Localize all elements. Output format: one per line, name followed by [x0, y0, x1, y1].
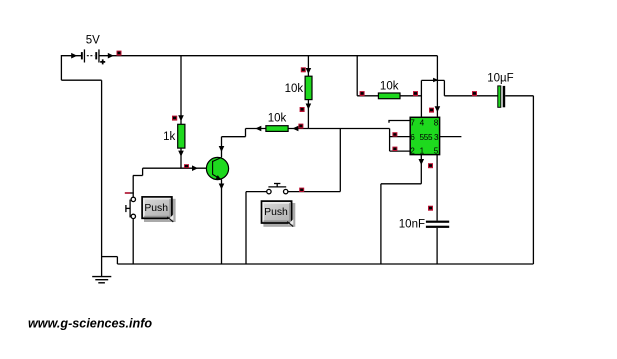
wire pin 5 down	[436, 155, 438, 221]
svg-text:3: 3	[434, 133, 439, 142]
svg-text:4: 4	[420, 119, 425, 128]
svg-text:1k: 1k	[163, 131, 175, 143]
wire pin 1 to ground rail	[380, 184, 382, 264]
wire SW2 left to ground rail	[245, 192, 247, 264]
wire pin 3 stub	[440, 136, 462, 138]
wire left elbow	[61, 79, 101, 81]
capacitor C1 10uF	[487, 72, 513, 107]
wire collector lead	[221, 137, 223, 157]
wire R4 left lead	[357, 95, 378, 97]
wire pin 2 lead	[390, 150, 411, 152]
push button box SW1	[142, 197, 176, 222]
wire stub to SW1	[130, 192, 134, 194]
wire C2 bottom lead	[436, 228, 438, 264]
wire mid horizontal to 555	[308, 128, 389, 130]
wire collector riser	[245, 129, 247, 137]
current arrow R3 bottom	[306, 104, 312, 110]
wire 10k R3 top lead	[307, 56, 309, 76]
current arrow R2 right	[292, 126, 298, 132]
battery B1 5V	[81, 35, 105, 65]
wire down to switch SW1	[132, 176, 134, 198]
svg-text:Push: Push	[144, 203, 168, 214]
wire cap feed drop	[443, 80, 445, 95]
node marker 1k top	[172, 116, 177, 121]
transistor Q1	[206, 157, 228, 180]
node marker pin 6	[392, 132, 397, 136]
ground	[92, 277, 111, 283]
svg-text:10k: 10k	[285, 83, 304, 95]
wire ground step horizontal	[102, 256, 118, 258]
wire base elbow vertical	[142, 168, 144, 175]
svg-text:5: 5	[434, 147, 439, 156]
wire pin 7 stub	[389, 121, 410, 123]
wire battery left lead	[61, 55, 81, 57]
wire to capacitor C1	[444, 95, 497, 97]
wire R3 bottom lead	[307, 100, 309, 129]
IC U1 555	[410, 117, 439, 155]
push button box SW2	[262, 201, 296, 227]
current arrow pin 8	[435, 106, 441, 112]
svg-text:7: 7	[410, 119, 415, 128]
node marker SW2 right	[299, 188, 304, 192]
node marker R3 top	[301, 67, 306, 72]
wire pin 1 horizontal	[381, 183, 421, 185]
svg-text:10k: 10k	[380, 81, 399, 93]
resistor R1 1k	[163, 124, 185, 148]
svg-text:www.g-sciences.info: www.g-sciences.info	[28, 317, 152, 331]
wire R4 right lead	[400, 95, 421, 97]
node marker base	[184, 164, 189, 168]
svg-text:10k: 10k	[268, 112, 287, 124]
wire ground step vertical	[116, 257, 118, 264]
push switch SW2 contacts	[267, 189, 288, 193]
wire SW1 bottom lead	[132, 219, 134, 264]
svg-text:2: 2	[410, 147, 415, 156]
svg-text:1: 1	[420, 147, 425, 156]
wire to 10k R2	[246, 128, 266, 130]
wire pins 6-2 vertical	[389, 129, 391, 152]
wire SW2 right lead	[288, 191, 340, 193]
current arrow emitter	[219, 184, 225, 190]
wire collector horizontal	[222, 136, 246, 138]
svg-text:Push: Push	[264, 207, 288, 218]
wire trigger vertical	[339, 129, 341, 192]
wire SW2 left lead	[246, 191, 267, 193]
svg-text:8: 8	[434, 119, 439, 128]
current arrow base wire	[192, 165, 198, 171]
node marker pin 5	[428, 163, 433, 168]
wire pin 8 vertical	[436, 56, 438, 118]
wire battery negative down	[60, 55, 62, 80]
node marker pin 2	[392, 147, 397, 151]
wire 1k top lead	[180, 56, 182, 125]
wire right rail	[532, 96, 534, 264]
push switch SW1 actuator	[126, 200, 130, 218]
resistor R3 10k vertical	[285, 76, 312, 99]
current arrow R3 top	[306, 68, 312, 74]
node marker above C2	[428, 206, 433, 211]
node marker R3 bottom	[300, 107, 305, 112]
push switch SW2 actuator	[268, 184, 286, 187]
wire C1 right lead	[505, 95, 533, 97]
resistor R2 10k	[266, 112, 288, 131]
current arrow top link	[433, 78, 438, 83]
svg-text:5V: 5V	[86, 35, 100, 47]
current arrow on battery left lead	[71, 53, 77, 59]
node marker top rail	[117, 51, 122, 56]
wire pin4 to pin8 top link	[421, 79, 444, 81]
node marker R4 right	[413, 91, 418, 96]
wire pin 4 vertical	[420, 80, 422, 117]
node marker pin 8	[429, 108, 434, 113]
node marker R2 right	[298, 124, 303, 129]
current arrow 1k bottom	[178, 151, 184, 157]
push switch SW1 contacts	[131, 197, 135, 218]
node marker before C1	[472, 91, 477, 96]
resistor R4 10k	[378, 81, 400, 99]
current arrow top rail	[108, 53, 114, 59]
current arrow 1k top	[178, 115, 184, 121]
wire pin 6 lead	[390, 136, 411, 138]
wire base node horizontal	[143, 167, 213, 169]
wire left rail	[101, 80, 103, 276]
current arrow pin 1	[419, 159, 425, 165]
node marker R4 left	[360, 91, 365, 96]
wire bottom rail	[117, 263, 533, 265]
svg-text:6: 6	[410, 133, 415, 142]
svg-text:555: 555	[420, 133, 434, 142]
wire top rail	[99, 55, 437, 57]
red voltage stub switch SW1	[125, 192, 131, 194]
svg-text:10nF: 10nF	[399, 219, 425, 231]
current arrow collector	[219, 146, 225, 152]
wire R2 right lead	[288, 128, 308, 130]
current arrow into R2	[255, 126, 261, 132]
wire base elbow horizontal	[133, 175, 143, 177]
wire pin 1 down	[420, 155, 422, 184]
wire 1k bottom lead	[180, 148, 182, 168]
wire emitter lead	[221, 180, 223, 264]
wire 10k R4 feed vertical	[356, 56, 358, 96]
svg-text:10µF: 10µF	[487, 72, 513, 84]
capacitor C2 10nF	[399, 219, 449, 231]
